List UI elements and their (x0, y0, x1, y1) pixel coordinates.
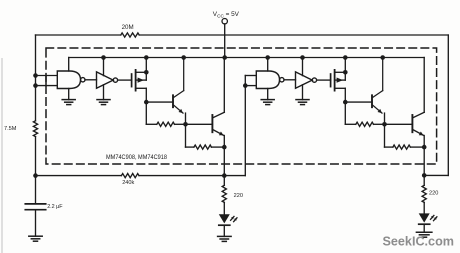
inverter U1B (97, 72, 114, 88)
wire: node A2 down to emitter resistor (384, 124, 386, 147)
node: emitter/resistor junction (222, 145, 227, 150)
wire: MOSFET source/body to rail (344, 58, 346, 81)
wire: internal Vcc rail (69, 57, 425, 59)
resistor 220 (block 2) (422, 185, 426, 202)
wire: node A2 to Q2 base (385, 123, 413, 125)
node: emitter/resistor junction (block 2) (422, 145, 427, 150)
ground (U1A) (62, 100, 75, 105)
wire: outer feedback loop top (left segment) (36, 34, 121, 36)
capacitor C1 2.2uF (25, 204, 45, 210)
LED D2 (419, 213, 430, 222)
wire: inverter ground stub (103, 85, 105, 100)
IC package dashed outline MM74C908/MM74C918 (46, 48, 437, 164)
node: NAND2 input feed junction (243, 83, 248, 88)
resistor R11 (base-emitter) (157, 122, 175, 126)
node: rail junction (inverter Vcc) (101, 55, 106, 60)
node: LED2 output node (422, 173, 427, 178)
resistor R22 (emitter) (393, 145, 411, 149)
wire: NAND output to inverter (284, 79, 296, 81)
wire: Q22 emitter down to LED2 node (423, 136, 425, 176)
wire: NAND input stubs (245, 75, 256, 77)
NAND gate U2A (256, 71, 279, 89)
wire: LED2 cathode to ground (423, 224, 425, 232)
svg-text:220: 220 (234, 193, 243, 199)
ground (C1) (29, 236, 42, 241)
NAND gate U1A (57, 71, 80, 89)
svg-text:MM74C908, MM74C918: MM74C908, MM74C918 (106, 154, 167, 161)
svg-text:VCC = 5V: VCC = 5V (213, 11, 240, 18)
wire: package-edge tie bar across NAND1 inputs (45, 76, 47, 86)
wire: LED1 cathode to ground (223, 225, 225, 236)
node: rail junction (Q1 collector) (181, 55, 186, 60)
resistor 240k (121, 174, 139, 178)
node: rail junction (Vcc entry / Q2 collector) (222, 55, 227, 60)
resistor R21 (base-emitter) (356, 122, 374, 126)
wire: RC node to 240k (36, 175, 122, 177)
wire: Q1 emitter to node A (384, 113, 386, 124)
ground (U1B) (97, 100, 110, 105)
MOSFET Q2P (P-channel pull-up) (331, 70, 346, 91)
LED D1 emission arrows (231, 216, 237, 221)
node A: Q1 emitter / Q2 base (382, 122, 387, 127)
wire: LED1 node to 220 resistor (223, 176, 225, 186)
wire: inverter Vcc stub (103, 58, 105, 76)
wire: MOSFET drain drop (344, 88, 346, 102)
transistor Q11 (NPN) (173, 58, 184, 114)
node: MOSFET source/body tie (343, 70, 348, 75)
wire: drain to Q11 base (146, 101, 173, 103)
wire: NAND ground stub (68, 89, 70, 100)
node: rail junction (NAND2 Vcc) (265, 55, 270, 60)
node: NAND1 input junction lower (33, 83, 38, 88)
scan edge artifact (1, 58, 3, 253)
node: MOSFET source/body tie (144, 70, 149, 75)
node: LED1 output node (222, 173, 227, 178)
node: rail junction (Q1 collector) (380, 55, 385, 60)
wire: MOSFET drain drop (145, 88, 147, 102)
wire: inverter ground stub (302, 85, 304, 100)
svg-text:2.2 µF: 2.2 µF (47, 204, 63, 210)
wire: capacitor to ground (35, 210, 37, 237)
wire: node A to Q2 base (186, 123, 213, 125)
wire: 220 to LED2 anode (423, 202, 425, 213)
transistor Q21 (NPN) (372, 58, 383, 114)
Vcc terminal (222, 19, 227, 24)
wire: drain node down to base resistor (145, 102, 147, 124)
wire: MOSFET source/body to rail (145, 58, 147, 81)
wire: NAND ground stub (267, 89, 269, 100)
wire: NAND output to inverter (85, 79, 97, 81)
node: rail junction (MOSFET) (144, 55, 149, 60)
resistor R12 (emitter) (194, 145, 212, 149)
wire: drain to Q21 base (345, 101, 372, 103)
transistor Q22 (NPN output, block 2) (412, 58, 424, 136)
wire: drain node down to base resistor (344, 102, 346, 124)
wire: outer feedback loop top (right segment) (139, 34, 448, 36)
LED D2 emission arrows (431, 215, 437, 220)
wire: inverter output to MOSFET gate (317, 79, 331, 81)
wire: inverter output to MOSFET gate (118, 79, 132, 81)
wire: Q2 emitter down to LED1 node (223, 136, 225, 176)
wire: LED1 node to NAND2 feed riser (224, 175, 245, 177)
wire: NAND Vcc stub (267, 58, 269, 72)
wire: left line from 7.5M down to RC node (35, 137, 37, 204)
wire: 220 to LED1 anode (223, 202, 225, 214)
svg-text:220: 220 (429, 191, 438, 197)
node: rail junction (inverter Vcc) (300, 55, 305, 60)
LED D1 (219, 214, 230, 223)
node: drain / base junction (343, 100, 348, 105)
wire: riser to NAND2 inputs (244, 86, 246, 176)
wire: inverter Vcc stub (302, 58, 304, 76)
resistor 220 (block 1) (222, 185, 226, 202)
svg-text:240k: 240k (122, 180, 134, 186)
wire: NAND Vcc stub (68, 58, 70, 72)
wire: left feedback line upper (to NAND1 inputs) (35, 35, 37, 121)
resistor 7.5M (33, 121, 37, 137)
inverter U2B (296, 72, 313, 88)
wire: NAND input stubs (36, 75, 58, 77)
wire: 240k to LED1 node (139, 175, 224, 177)
wire: LED2 node to 220 resistor (423, 175, 425, 185)
node: drain / base junction (144, 100, 149, 105)
ground (U2B) (296, 100, 309, 105)
wire: outer feedback loop right side (447, 35, 449, 175)
node A: Q1 emitter / Q2 base (183, 122, 188, 127)
wire: outer feedback loop bottom right to LED2 node (424, 174, 448, 176)
MOSFET Q1P (P-channel pull-up) (132, 70, 147, 91)
ground (LED1) (218, 236, 232, 241)
node: rail junction (MOSFET) (343, 55, 348, 60)
wire: Vcc to rail (224, 24, 226, 58)
resistor 20M (feedback) (121, 33, 139, 37)
ground (U2A) (261, 100, 274, 105)
NAND2 input tie bar (244, 76, 246, 86)
wire: node A down to emitter resistor (185, 124, 187, 147)
wire: Q1 emitter to node A (185, 113, 187, 124)
node: RC junction (7.5M / 240k / C) (33, 173, 38, 178)
transistor Q12 (NPN output, block 1) (212, 58, 224, 136)
svg-text:7.5M: 7.5M (4, 126, 17, 132)
svg-text:20M: 20M (122, 24, 134, 31)
svg-text:SeekIC.com: SeekIC.com (383, 234, 455, 249)
node: NAND1 input junction upper (33, 73, 38, 78)
ground (LED2) (416, 232, 432, 237)
